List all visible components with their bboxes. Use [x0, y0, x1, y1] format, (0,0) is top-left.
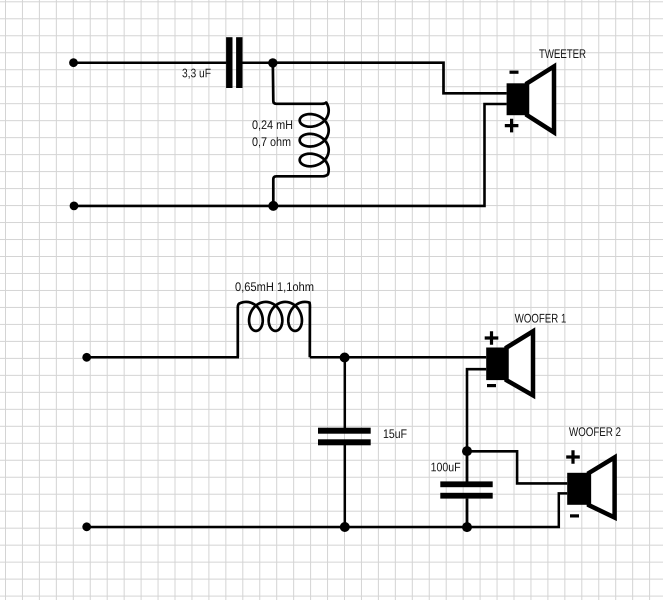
capacitor C3 100uF plate 1	[440, 481, 492, 487]
label C1 value 3,3 uF	[182, 69, 210, 79]
tweeter plus sign	[505, 119, 519, 133]
wire node E to woofer 2 upper pin	[467, 451, 567, 483]
tweeter minus sign	[510, 71, 519, 74]
inductor L1 0,24 mH vertical shunt	[273, 60, 329, 206]
wire L2 to woofer 1 upper pin	[310, 356, 486, 359]
label TWEETER	[539, 49, 585, 58]
label C3 value 100uF	[431, 463, 460, 472]
woofer 1 plus sign	[485, 331, 499, 345]
node IN+ top-left terminal	[69, 58, 78, 67]
label WOOFER 2	[569, 427, 621, 436]
node C junction dot	[340, 353, 350, 363]
tweeter SP1 cone	[527, 66, 554, 132]
wire node A to tweeter upper pin	[273, 63, 507, 94]
tweeter SP1 magnet body	[507, 83, 527, 115]
woofer 1 magnet body	[486, 348, 506, 381]
wire node E down to capacitor C3	[466, 451, 469, 482]
node A junction dot	[268, 58, 277, 67]
node E junction dot	[462, 446, 472, 456]
label WOOFER 1	[515, 314, 566, 323]
wire C3 to bottom rail	[466, 499, 469, 527]
woofer 1 minus sign	[487, 384, 496, 387]
woofer 2 plus sign	[566, 450, 580, 464]
wire C2 to bottom rail	[344, 445, 347, 527]
node D junction dot on bottom rail	[340, 522, 350, 532]
label L2 value 0,65mH 1,1ohm	[235, 282, 313, 293]
node B junction dot on bottom rail	[268, 201, 278, 211]
label L1 value 0,24 mH	[252, 120, 292, 130]
capacitor C3 100uF plate 2	[440, 493, 492, 499]
label L1 resistance 0,7 ohm	[252, 137, 290, 148]
capacitor C1 3,3 uF plate 2	[236, 37, 242, 88]
wire bottom rail of woofer circuit	[87, 493, 568, 527]
woofer 2 magnet body	[567, 473, 589, 505]
label C2 value 15uF	[384, 429, 407, 438]
wire node C down to capacitor C2	[344, 357, 347, 428]
wire bottom rail of top circuit	[74, 104, 507, 206]
capacitor C2 15uF plate 2	[318, 439, 371, 445]
node IN- bottom-left terminal	[70, 202, 79, 211]
wire left terminal to inductor L2	[87, 356, 239, 359]
woofer 1 cone	[507, 331, 534, 395]
inductor L2 0,65 mH series	[238, 302, 310, 357]
capacitor C1 3,3 uF plate 1	[226, 37, 232, 88]
node F junction dot on bottom rail	[462, 522, 472, 532]
wire woofer 1 lower pin to node E	[467, 369, 486, 451]
woofer 2 cone	[589, 457, 615, 517]
wire top-left terminal to capacitor C1	[74, 61, 227, 64]
node IN2+ left terminal	[82, 353, 91, 362]
node IN2- bottom-left terminal	[82, 522, 91, 531]
wire C1 to node A	[243, 61, 273, 64]
capacitor C2 15uF plate 1	[318, 428, 371, 434]
woofer 2 minus sign	[570, 514, 579, 517]
